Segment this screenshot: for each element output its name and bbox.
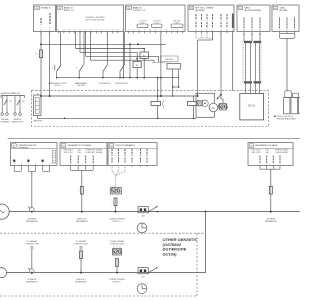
lamp load bbox=[193, 96, 195, 101]
svg-text:J23: J23 bbox=[110, 146, 113, 148]
wire F3 to bus bbox=[115, 206, 117, 212]
wire CT2 drop bbox=[31, 250, 33, 270]
wire other genset bus bbox=[7, 272, 206, 274]
J21 terminals bbox=[13, 165, 15, 168]
svg-text:GENERATOR VOLTAGE: GENERATOR VOLTAGE bbox=[67, 144, 91, 147]
wire CT drop bbox=[31, 171, 33, 207]
genset enclosure dashed boundary bbox=[32, 91, 269, 127]
generator G1 circle bbox=[0, 204, 9, 219]
svg-text:INPUT 1-4: INPUT 1-4 bbox=[64, 10, 75, 12]
engine starter cluster box bbox=[196, 93, 214, 117]
other gensets dashed boundary right bbox=[196, 233, 198, 296]
wire breaker coil dashed stubs bbox=[113, 246, 115, 249]
svg-text:2: 2 bbox=[49, 27, 50, 29]
svg-text:(ALTERN): (ALTERN) bbox=[195, 9, 205, 12]
fuse F6 bbox=[116, 259, 119, 267]
node bus voltage tap bbox=[270, 211, 272, 213]
wire J24 pin to DC rail bbox=[160, 32, 162, 97]
wire S4 to common bbox=[119, 71, 121, 77]
key switch contact block bbox=[167, 64, 181, 70]
wire battery positive from J28-1 bbox=[40, 32, 42, 51]
svg-text:INPUT (4 LIMIT/FLOAT): INPUT (4 LIMIT/FLOAT) bbox=[86, 19, 105, 22]
svg-text:SWITCH: SWITCH bbox=[77, 85, 85, 87]
svg-text:J25: J25 bbox=[250, 146, 253, 148]
J11 pin labels bbox=[243, 18, 245, 30]
J22 pin labels bbox=[70, 156, 72, 164]
svg-text:J10: J10 bbox=[274, 8, 277, 10]
fuse F1 bbox=[40, 50, 43, 58]
arrow to alternator bbox=[217, 95, 221, 99]
svg-text:5: 5 bbox=[42, 163, 43, 165]
svg-text:MOB SWITCH: MOB SWITCH bbox=[115, 83, 128, 85]
wire sheet boundary line bbox=[8, 138, 300, 140]
connector J22 generator voltage box bbox=[60, 143, 107, 166]
J25 pin labels bbox=[259, 156, 261, 164]
svg-text:OUTPUT 1-2: OUTPUT 1-2 bbox=[133, 10, 146, 12]
circuit breaker 52G contact 2 bbox=[138, 268, 148, 274]
svg-text:FUSES EXT 600VAC: FUSES EXT 600VAC bbox=[85, 151, 103, 154]
CAN shield termination bottom bbox=[244, 81, 252, 83]
J23 pin labels bbox=[111, 149, 113, 156]
svg-text:J21: J21 bbox=[13, 146, 16, 148]
wire F1 to battery bbox=[40, 58, 42, 95]
svg-text:SIGNAL B: SIGNAL B bbox=[41, 7, 51, 10]
J24 terminals bbox=[127, 31, 129, 33]
relay K1 bbox=[133, 62, 141, 68]
wire F4 to bus bbox=[270, 194, 272, 212]
alternator G circle bbox=[209, 103, 218, 112]
wire horizontal feed bus bbox=[41, 43, 166, 45]
remote panel wires bbox=[1, 96, 3, 113]
solenoid hatched block bbox=[220, 103, 227, 110]
wire breaker control merge bbox=[112, 171, 116, 176]
svg-text:SUPPLY +: SUPPLY + bbox=[113, 282, 123, 284]
wire F2 to bus bbox=[81, 194, 83, 212]
wire K2 to common bbox=[143, 58, 145, 77]
node paralleling bus tap bbox=[205, 211, 207, 213]
node breaker coil tap bbox=[115, 211, 117, 213]
svg-text:J26: J26 bbox=[190, 8, 193, 10]
wire starter feed bbox=[220, 95, 222, 100]
battery 12V block bbox=[34, 95, 41, 116]
svg-text:BUS/MAINS VOLTAGE: BUS/MAINS VOLTAGE bbox=[255, 144, 278, 147]
switch S3 feed bbox=[106, 32, 108, 65]
starter motor circle bbox=[202, 100, 208, 106]
wire switch common bus bbox=[57, 77, 179, 79]
other gensets dashed boundary top bbox=[0, 232, 206, 234]
connector J28 (signal B) box bbox=[34, 5, 56, 32]
connector J27 analog input box bbox=[57, 5, 124, 32]
wire feed bus drop bbox=[129, 43, 131, 45]
svg-text:J28: J28 bbox=[36, 8, 39, 10]
wire J10 group bracket bbox=[279, 33, 295, 38]
J21 side label column bbox=[52, 151, 55, 164]
svg-text:SUPPLY +: SUPPLY + bbox=[113, 221, 123, 223]
remote panel switch R1 bbox=[4, 100, 7, 106]
svg-text:52G: 52G bbox=[111, 188, 121, 194]
svg-text:REFERENCE: REFERENCE bbox=[76, 221, 88, 223]
svg-text:START/STOP: START/STOP bbox=[12, 121, 24, 124]
svg-text:3: 3 bbox=[28, 163, 29, 165]
J25 sense comb bbox=[260, 168, 280, 170]
remote panel switch R2 bbox=[17, 100, 20, 106]
svg-text:1: 1 bbox=[14, 163, 15, 165]
connector J10 CAN1 engine box bbox=[272, 5, 299, 32]
J22 terminals bbox=[70, 165, 72, 170]
switch S2 blade bbox=[79, 65, 83, 72]
connector J26 key switch / crank box bbox=[188, 5, 234, 32]
wire main generator bus bbox=[9, 211, 300, 213]
breaker coil 52G block bbox=[110, 188, 121, 195]
svg-text:52G: 52G bbox=[141, 216, 145, 218]
CAN cable shield dashed sheath bbox=[242, 41, 244, 84]
connector J25 bus voltage box bbox=[248, 143, 293, 166]
svg-text:BUS L1(U): BUS L1(U) bbox=[252, 152, 261, 154]
svg-text:ENGINE START BATT: ENGINE START BATT bbox=[277, 117, 297, 120]
J26 pin labels bbox=[195, 14, 197, 21]
wire key switch leads bbox=[172, 69, 174, 96]
wire CAN2 leads into cable bbox=[243, 33, 245, 41]
wire volt ref drop 2 bbox=[80, 249, 82, 252]
generator G2 circle bbox=[0, 268, 7, 278]
remote panel bracket bbox=[1, 95, 25, 97]
wire stair 1 to relay K2 bbox=[75, 32, 77, 49]
svg-text:52G: 52G bbox=[112, 249, 122, 255]
svg-text:CONTROL UNIT: CONTROL UNIT bbox=[74, 243, 89, 245]
start battery jumper links bbox=[285, 91, 292, 98]
switch S2 feed bbox=[83, 32, 85, 65]
fuse F4 bbox=[269, 186, 272, 194]
svg-text:FUSES 600VAC: FUSES 600VAC bbox=[275, 151, 289, 154]
connector J24 analog output box bbox=[126, 5, 186, 32]
svg-text:RUNNING: RUNNING bbox=[1, 122, 10, 124]
J27 terminals bbox=[58, 31, 60, 33]
node feed bus bbox=[137, 43, 139, 45]
connector J21 current inputs box bbox=[10, 143, 57, 166]
breaker operator clock symbol 2 bbox=[137, 284, 147, 294]
switch S1 blade bbox=[57, 65, 61, 72]
svg-text:J11: J11 bbox=[239, 8, 242, 10]
svg-text:REFERENCE: REFERENCE bbox=[26, 282, 38, 284]
breaker operator clock symbol bbox=[137, 223, 147, 233]
svg-text:BATTERY: BATTERY bbox=[33, 119, 43, 122]
node gen voltage tap bbox=[81, 211, 83, 213]
wire DC positive rail bbox=[41, 95, 196, 97]
svg-text:2: 2 bbox=[21, 163, 22, 165]
svg-text:KEYSW: KEYSW bbox=[165, 59, 173, 61]
J26 terminals bbox=[195, 31, 197, 33]
svg-text:(ACCESSORIES): (ACCESSORIES) bbox=[244, 9, 261, 12]
start battery cells bbox=[284, 98, 290, 114]
J28 terminals bbox=[40, 31, 42, 33]
wire crank feed bbox=[212, 32, 214, 41]
svg-text:(E-CAN): (E-CAN) bbox=[279, 9, 287, 12]
J28 pin labels bbox=[40, 18, 42, 25]
svg-text:1: 1 bbox=[41, 27, 42, 29]
svg-text:4: 4 bbox=[35, 163, 36, 165]
svg-text:ECU: ECU bbox=[248, 104, 255, 108]
wire J26 crank group dashed drops bbox=[195, 33, 197, 38]
relay K2 bbox=[140, 52, 148, 58]
node battery bus bbox=[40, 43, 42, 45]
svg-text:J27: J27 bbox=[59, 8, 62, 10]
connector J11 CAN2 accessories box bbox=[237, 5, 270, 32]
svg-text:R1: R1 bbox=[9, 101, 11, 103]
wire J27 pin13 to common bbox=[122, 32, 124, 78]
J25 terminals bbox=[259, 165, 261, 169]
wire J28-2 down to DC rail bbox=[49, 32, 51, 97]
svg-text:GEN L1(U): GEN L1(U) bbox=[64, 152, 73, 154]
key switch leader bbox=[152, 62, 167, 64]
svg-text:(LOCK): (LOCK) bbox=[54, 85, 61, 87]
key switch label bbox=[161, 56, 179, 62]
switch S1 emergency stop feed bbox=[60, 32, 62, 65]
wire DC negative rail bbox=[37, 117, 196, 119]
svg-text:CONTROL UNIT: CONTROL UNIT bbox=[110, 243, 125, 245]
wire key switch link bbox=[173, 86, 179, 88]
wire S1 to common bbox=[56, 71, 58, 77]
glow plug load bbox=[157, 78, 159, 102]
connector J23 circuit breaker box bbox=[108, 143, 157, 166]
J22 sense comb bbox=[71, 169, 94, 171]
svg-text:CIRCUIT BREAKER: CIRCUIT BREAKER bbox=[115, 144, 135, 147]
J10 pin labels bbox=[279, 18, 281, 30]
switch S3 blade bbox=[103, 65, 107, 72]
switch S4 feed bbox=[123, 32, 125, 65]
current transformer CT2 bbox=[30, 269, 35, 274]
svg-text:REFERENCE: REFERENCE bbox=[75, 282, 87, 284]
wire CAN pairs to ECU bbox=[245, 84, 247, 94]
svg-text:R2: R2 bbox=[22, 101, 24, 103]
svg-text:52G: 52G bbox=[218, 104, 228, 110]
CAN conductors bbox=[245, 43, 247, 81]
CAN shield termination top bbox=[244, 41, 252, 43]
current transformer CT1 bbox=[30, 207, 35, 212]
fuse F3 bbox=[114, 198, 117, 206]
breaker coil 52G block 2 bbox=[113, 249, 122, 256]
wire battery charge lead bbox=[286, 38, 288, 91]
fuse F5 bbox=[80, 251, 83, 259]
wire stair 4 to key switch bbox=[90, 32, 92, 61]
remote panel terminals bbox=[1, 113, 4, 116]
svg-text:52G: 52G bbox=[141, 277, 145, 279]
label start battery bbox=[274, 115, 276, 117]
svg-text:REMOTE PANEL(S): REMOTE PANEL(S) bbox=[1, 92, 20, 95]
wire alternator sense bbox=[220, 32, 222, 95]
J10 terminals bbox=[279, 31, 281, 33]
current transformer loops bbox=[13, 169, 15, 172]
svg-text:J24: J24 bbox=[128, 8, 131, 10]
J23 terminals bbox=[111, 165, 113, 171]
circuit breaker 52G main contact bbox=[138, 207, 148, 213]
wire F6 to bus bbox=[116, 266, 118, 272]
switch S4 blade bbox=[120, 65, 124, 72]
wire F5 to bus bbox=[80, 259, 82, 273]
svg-text:CONTROL UNIT: CONTROL UNIT bbox=[25, 243, 40, 245]
svg-text:REFERENCE: REFERENCE bbox=[265, 221, 277, 223]
svg-text:COB SWITCH: COB SWITCH bbox=[98, 83, 111, 85]
wire K1 to common bbox=[136, 68, 138, 78]
starter relay small box bbox=[197, 100, 202, 106]
svg-text:REFERENCE: REFERENCE bbox=[26, 221, 38, 223]
J11 terminals bbox=[243, 31, 245, 33]
fuse F2 bbox=[80, 186, 83, 194]
wire alternator excite bbox=[232, 32, 234, 91]
wire stair 2 to relay K1 bbox=[79, 32, 81, 53]
svg-text:6: 6 bbox=[49, 163, 50, 165]
svg-text:J22: J22 bbox=[62, 146, 65, 148]
wire paralleling link bbox=[205, 212, 207, 273]
wire S2 to common bbox=[78, 71, 80, 77]
wire stair 3 to key switch bbox=[85, 32, 87, 57]
svg-text:GC10a): GC10a) bbox=[163, 252, 178, 257]
other gensets dashed boundary bottom bbox=[0, 295, 197, 297]
wire S3 to common bbox=[102, 71, 104, 77]
engine ECU box bbox=[240, 94, 264, 120]
